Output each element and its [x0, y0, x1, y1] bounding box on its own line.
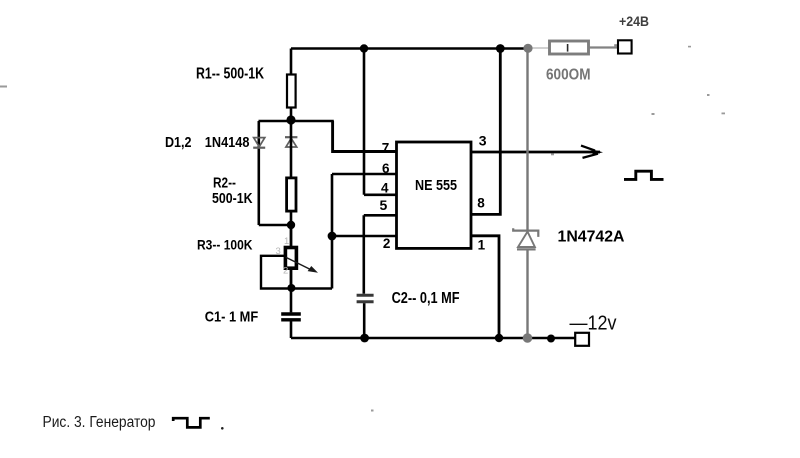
- svg-text:1N4742A: 1N4742A: [558, 229, 625, 246]
- wire node to pin2 riser: [291, 287, 332, 290]
- wire D1 branch vertical: [257, 121, 260, 225]
- wire zener riser top: [526, 49, 528, 231]
- svg-text:3: 3: [479, 132, 487, 148]
- node top rail junction 1: [360, 44, 368, 52]
- svg-text:4: 4: [381, 181, 389, 196]
- wire C2 to bottom rail: [363, 303, 366, 338]
- resistor R1: [287, 49, 296, 122]
- node top rail junction 2: [496, 44, 505, 53]
- diode D1: [253, 138, 265, 148]
- wire pin 6: [332, 173, 397, 176]
- node top rail gray junction: [523, 44, 532, 53]
- wire faint segment to 600 ohm resistor: [531, 47, 550, 49]
- capacitor C2: [357, 295, 374, 302]
- wire pin 1 to bottom rail: [471, 236, 499, 338]
- wire nub at +24V terminal: [614, 44, 617, 46]
- node junction below R2: [287, 221, 295, 229]
- wire pin 4 riser from +rail: [363, 49, 366, 195]
- wire pin 8 to +rail: [471, 49, 500, 215]
- wire bottom rail: [291, 337, 576, 340]
- node bottom rail junction pin1: [495, 334, 503, 342]
- speck marks: [0, 46, 725, 412]
- R3 wiper arrow: [286, 257, 318, 273]
- svg-text:NE 555: NE 555: [415, 177, 457, 194]
- svg-text:D1,2: D1,2: [165, 135, 192, 151]
- diode VD zener 1N4742A: [513, 228, 538, 249]
- resistor R2: [287, 120, 296, 226]
- R3 faint pin numbers: [276, 236, 290, 277]
- wire zener riser bottom: [526, 249, 528, 338]
- wire pin6/pin2 riser: [331, 174, 334, 289]
- wire horizontal at node: [259, 120, 334, 122]
- svg-text:2: 2: [283, 266, 288, 277]
- output pulse waveform glyph: [624, 171, 664, 179]
- node C2 bottom junction: [360, 334, 369, 343]
- svg-text:1: 1: [284, 236, 289, 247]
- diode D2: [285, 137, 297, 147]
- svg-text:2: 2: [383, 236, 391, 251]
- IC NE 555 box: [397, 142, 472, 248]
- svg-text:6: 6: [382, 161, 390, 176]
- svg-text:8: 8: [477, 196, 485, 211]
- svg-text:C2-- 0,1 MF: C2-- 0,1 MF: [392, 290, 460, 307]
- node junction below R1: [286, 115, 295, 124]
- wire top rail +12 net: [291, 47, 527, 50]
- caption period dot: [221, 427, 224, 430]
- node bottom rail gray junction: [523, 333, 533, 343]
- wire pin 3 output with arrow: [471, 146, 600, 158]
- svg-text:500-1K: 500-1K: [212, 191, 253, 207]
- node pin2 junction: [328, 232, 337, 241]
- wire pin 2: [332, 235, 397, 238]
- svg-text:R2--: R2--: [213, 175, 236, 191]
- caption waveform glyph: [173, 418, 210, 427]
- terminal -12v square: [575, 333, 589, 346]
- wire resistor to +24 terminal: [589, 46, 618, 48]
- svg-text:5: 5: [380, 197, 388, 213]
- terminal +24V square: [618, 40, 632, 53]
- capacitor C1: [281, 289, 301, 339]
- resistor 600 Ohm: [550, 41, 589, 54]
- wire pin5 to C2: [362, 215, 365, 293]
- svg-text:Рис. 3. Генератор: Рис. 3. Генератор: [43, 414, 156, 431]
- svg-text:—12v: —12v: [570, 313, 617, 335]
- wire pin 4: [364, 194, 397, 197]
- svg-text:R1-- 500-1K: R1-- 500-1K: [196, 66, 265, 83]
- svg-text:R3-- 100K: R3-- 100K: [197, 237, 253, 253]
- node bottom rail black dot: [547, 335, 555, 343]
- wire pin 5: [364, 214, 397, 217]
- svg-text:+24В: +24В: [619, 13, 649, 29]
- wire pin 7: [333, 121, 397, 152]
- potentiometer R3: [285, 225, 296, 289]
- wire D1 branch to node: [259, 224, 291, 227]
- node junction below R3: [287, 284, 295, 292]
- wire R3 left loop: [261, 256, 291, 289]
- svg-text:C1- 1 MF: C1- 1 MF: [205, 308, 259, 325]
- svg-text:7: 7: [382, 140, 390, 155]
- svg-text:600ОМ: 600ОМ: [546, 67, 591, 84]
- svg-text:1N4148: 1N4148: [205, 135, 250, 151]
- svg-text:1: 1: [478, 238, 486, 253]
